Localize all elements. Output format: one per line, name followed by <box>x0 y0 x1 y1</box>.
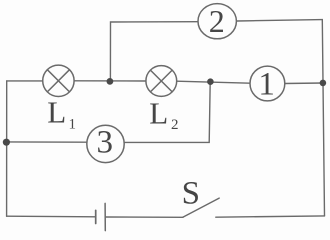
svg-text:L: L <box>149 95 168 130</box>
svg-text:L: L <box>47 95 66 130</box>
svg-text:1: 1 <box>69 117 77 133</box>
svg-text:S: S <box>182 176 200 212</box>
svg-text:2: 2 <box>171 117 179 133</box>
svg-text:2: 2 <box>209 3 225 39</box>
svg-text:1: 1 <box>258 67 275 103</box>
svg-text:3: 3 <box>97 125 114 161</box>
